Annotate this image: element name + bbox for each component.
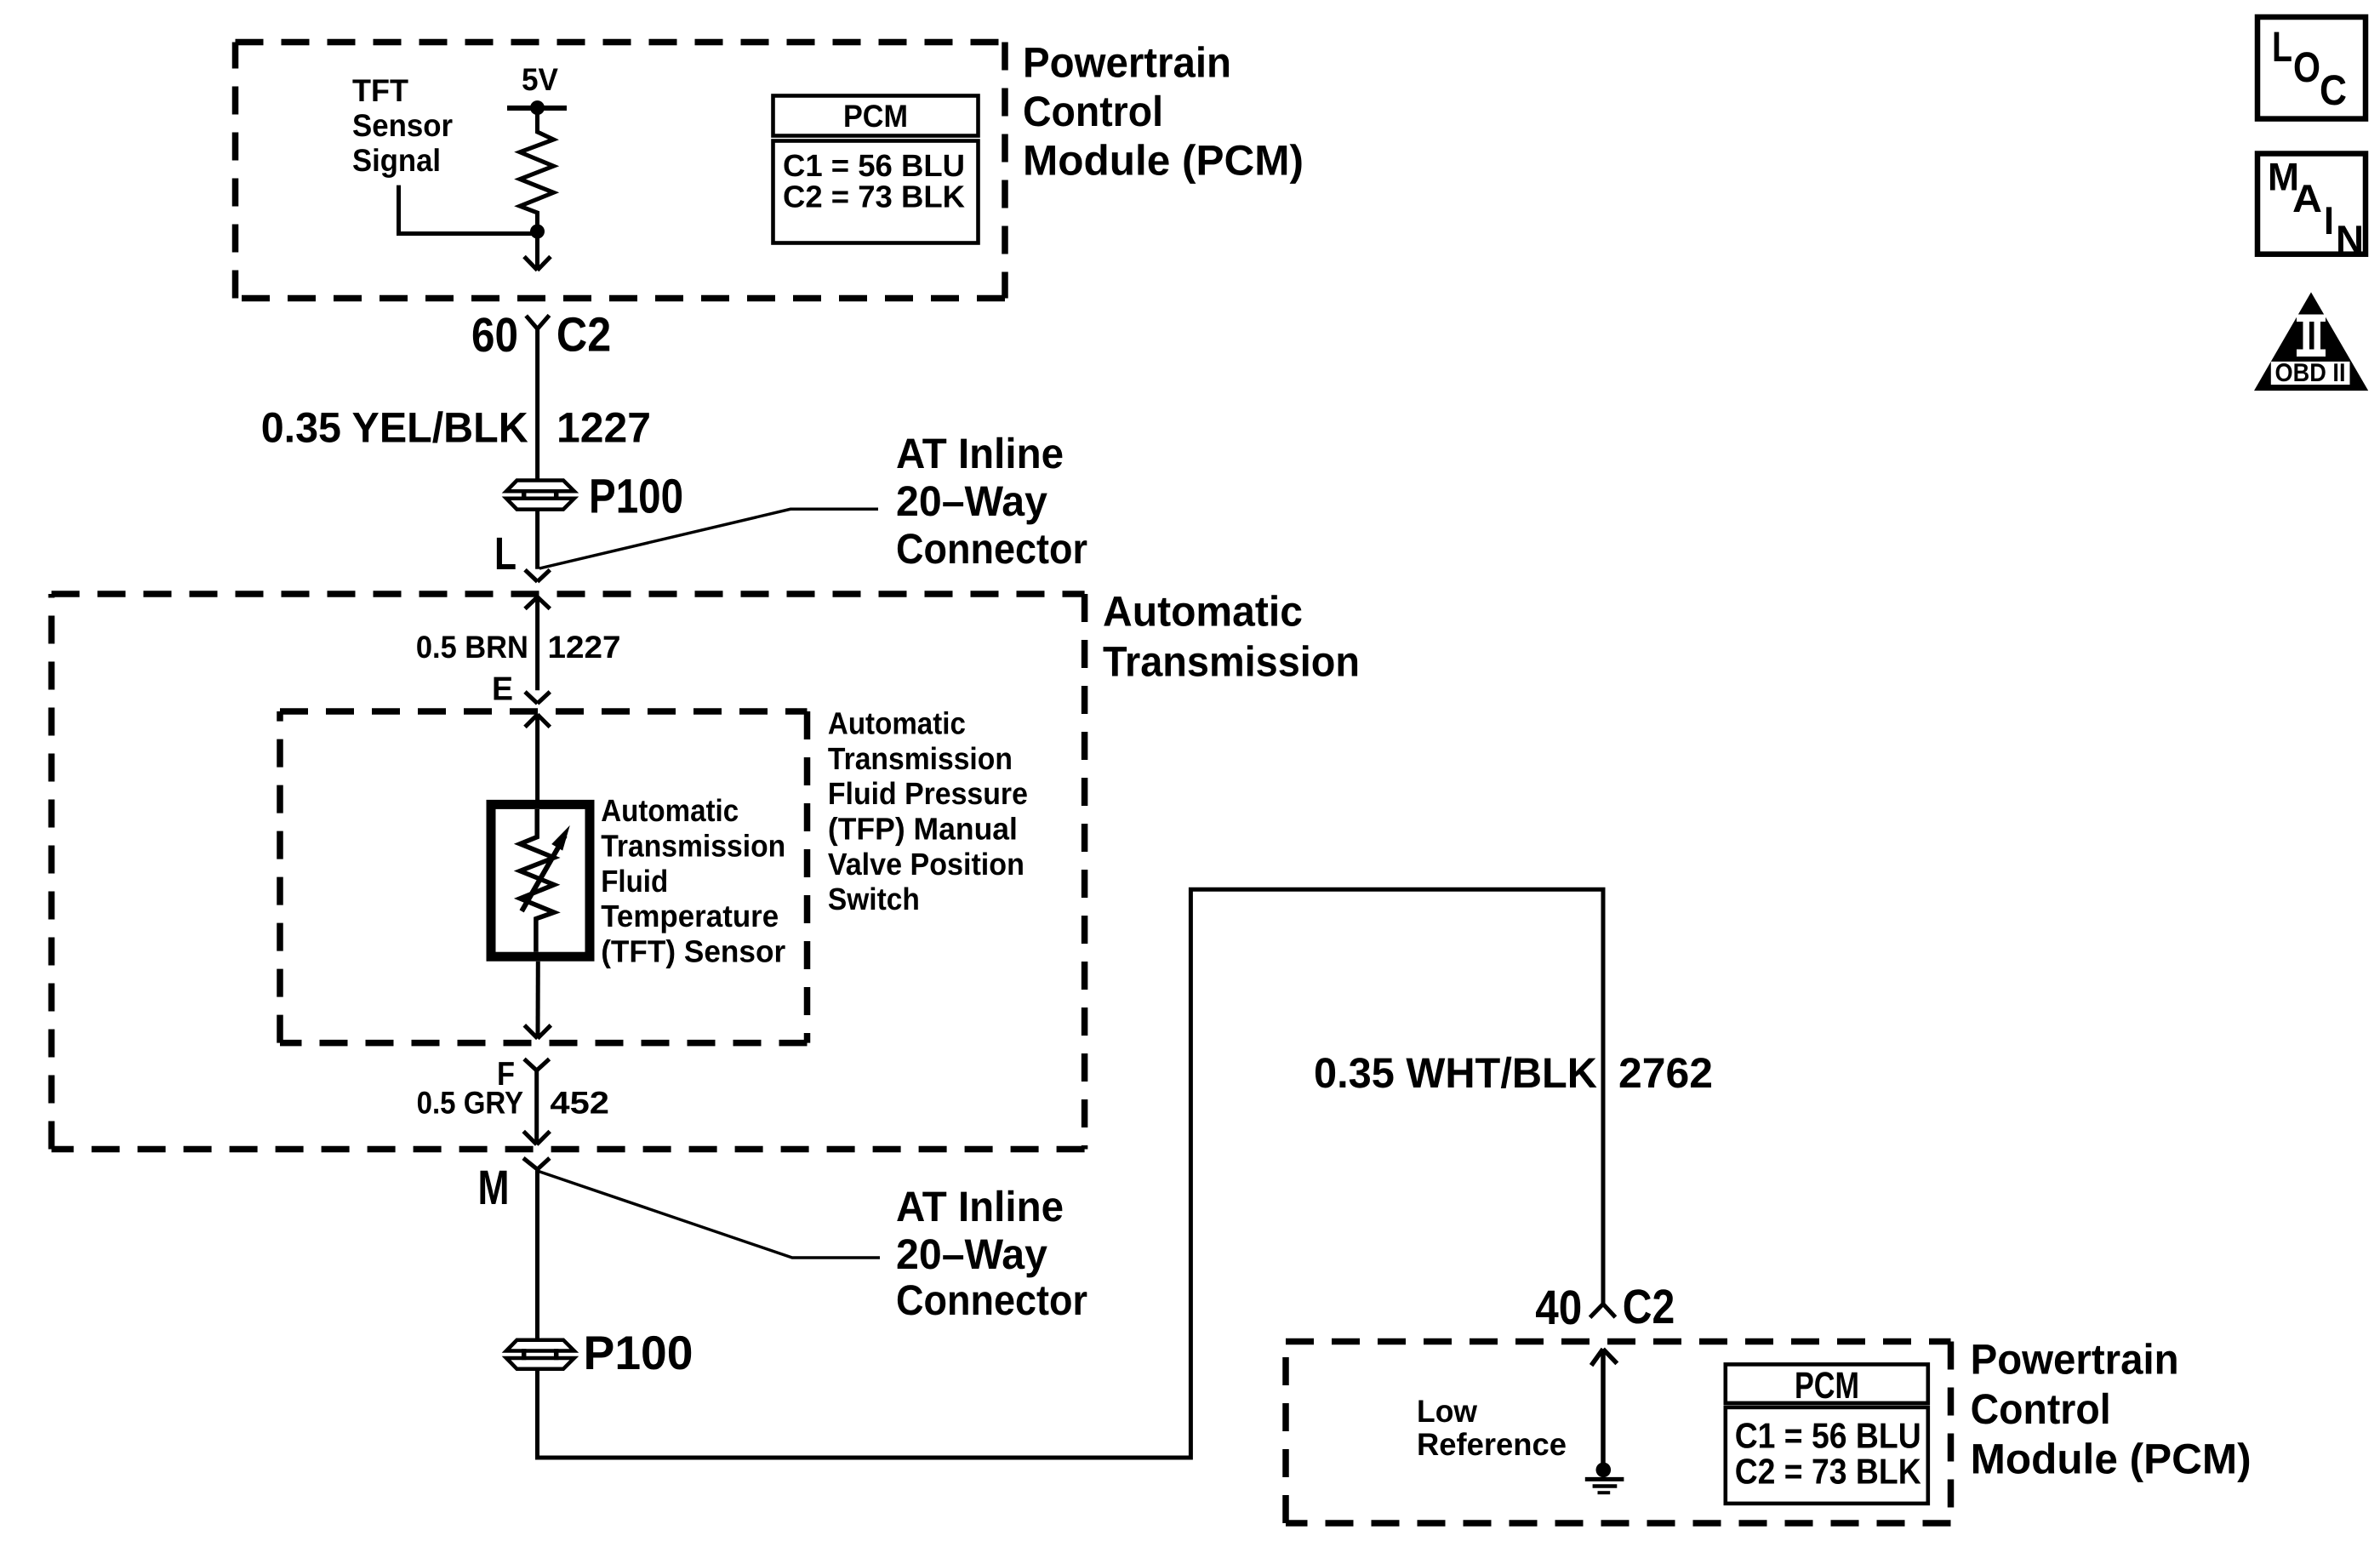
svg-text:Automatic: Automatic — [601, 793, 739, 828]
svg-text:P100: P100 — [584, 1326, 693, 1379]
svg-text:20–Way: 20–Way — [896, 1230, 1047, 1278]
svg-text:(TFT) Sensor: (TFT) Sensor — [601, 934, 785, 969]
wire: sensor to terminal F, arrow down — [524, 962, 551, 1039]
wire: 0.35 YEL/BLK 1227 from PCM to P100 — [535, 329, 539, 481]
svg-text:PCM: PCM — [843, 99, 908, 134]
svg-text:452: 452 — [550, 1085, 609, 1120]
junction: 5V node dot — [530, 100, 545, 115]
svg-text:C2: C2 — [556, 308, 611, 362]
svg-text:TFT: TFT — [352, 73, 408, 108]
connector terminal: E chevron — [525, 692, 550, 704]
module box: TFT sensor / TFP switch inner dashed enclosure — [280, 711, 808, 1043]
callout line: AT Inline 20-Way Connector (upper) — [539, 509, 878, 568]
svg-text:5V: 5V — [522, 62, 558, 97]
label: AT Inline 20-Way Connector (lower) — [896, 1183, 1087, 1324]
callout line: AT Inline 20-Way Connector (lower) — [538, 1171, 881, 1258]
svg-text:Temperature: Temperature — [601, 899, 779, 933]
svg-text:Automatic: Automatic — [1103, 588, 1303, 636]
svg-text:A: A — [2292, 176, 2322, 220]
svg-text:C1 = 56 BLU: C1 = 56 BLU — [783, 148, 965, 183]
wire: terminal F to transmission boundary, arrow down — [523, 1070, 550, 1144]
wire: low reference into PCM, arrow up — [1591, 1349, 1617, 1470]
wire: M to P100 lower — [535, 1169, 539, 1340]
resistor: PCM internal pull-up — [520, 107, 554, 231]
svg-text:AT Inline: AT Inline — [896, 430, 1064, 477]
svg-text:40: 40 — [1535, 1281, 1582, 1335]
svg-text:Connector: Connector — [896, 1276, 1087, 1324]
svg-text:Low: Low — [1417, 1394, 1477, 1429]
label: Automatic Transmission Fluid Temperature (TFT) Sensor — [601, 793, 785, 968]
svg-text:Reference: Reference — [1417, 1427, 1567, 1462]
connector P100: inline connector symbol (lower) — [506, 1340, 574, 1369]
svg-text:C2 = 73 BLK: C2 = 73 BLK — [1735, 1451, 1921, 1491]
wire: arrow to 60 C2 pin — [524, 231, 551, 271]
connector terminal: 40 C2 fork — [1590, 1304, 1616, 1317]
label: Low Reference — [1417, 1394, 1567, 1462]
svg-text:Module (PCM): Module (PCM) — [1023, 137, 1304, 185]
wire: 0.35 WHT/BLK 2762 low reference run — [538, 889, 1604, 1458]
svg-text:0.35 YEL/BLK: 0.35 YEL/BLK — [261, 403, 528, 451]
junction: TFT sensor signal node dot — [530, 225, 545, 239]
wire: P100 to terminal L — [535, 510, 539, 569]
svg-text:P100: P100 — [589, 470, 683, 524]
svg-text:1227: 1227 — [548, 630, 621, 665]
svg-text:Transmission: Transmission — [1103, 638, 1360, 686]
module box: Powertrain Control Module (PCM) top dashed enclosure — [236, 43, 1006, 299]
svg-text:(TFP) Manual: (TFP) Manual — [828, 812, 1018, 847]
svg-text:OBD II: OBD II — [2275, 359, 2346, 387]
svg-text:Connector: Connector — [896, 525, 1087, 573]
svg-text:Powertrain: Powertrain — [1971, 1335, 2179, 1383]
svg-text:2762: 2762 — [1618, 1049, 1713, 1097]
svg-text:L: L — [2272, 23, 2292, 71]
svg-text:C2 = 73 BLK: C2 = 73 BLK — [783, 180, 966, 214]
svg-text:Control: Control — [1971, 1385, 2111, 1433]
connector terminal: F chevron — [524, 1059, 550, 1071]
ground: PCM low reference ground symbol — [1585, 1479, 1624, 1493]
resistor: TFT thermistor element — [520, 809, 554, 952]
svg-text:Sensor: Sensor — [352, 108, 453, 143]
label: TFP Manual Valve Position Switch — [828, 706, 1028, 917]
svg-text:1227: 1227 — [556, 403, 651, 451]
label: Powertrain Control Module (PCM) top — [1023, 39, 1304, 185]
svg-text:Transmission: Transmission — [828, 741, 1013, 776]
svg-text:Control: Control — [1023, 88, 1163, 135]
svg-text:M: M — [478, 1161, 510, 1215]
label: AT Inline 20-Way Connector (upper) — [896, 430, 1087, 573]
svg-text:PCM: PCM — [1795, 1365, 1859, 1407]
wire: terminal E into sensor, arrow up — [525, 715, 550, 805]
icon: MAIN reference box — [2257, 154, 2366, 254]
connector terminal: M chevron — [523, 1158, 550, 1169]
label: Powertrain Control Module (PCM) bottom — [1971, 1335, 2252, 1482]
svg-text:I: I — [2324, 198, 2334, 243]
svg-text:AT Inline: AT Inline — [896, 1183, 1064, 1230]
svg-text:Powertrain: Powertrain — [1023, 39, 1231, 87]
svg-text:Fluid: Fluid — [601, 864, 668, 899]
module box: Powertrain Control Module (PCM) bottom dashed enclosure — [1286, 1342, 1951, 1524]
svg-text:Fluid Pressure: Fluid Pressure — [828, 776, 1028, 811]
svg-text:Signal: Signal — [352, 143, 441, 178]
svg-text:0.35 WHT/BLK: 0.35 WHT/BLK — [1314, 1049, 1597, 1097]
icon: OBD II triangle — [2254, 292, 2368, 391]
label: TFT Sensor Signal — [352, 73, 453, 178]
svg-text:L: L — [494, 528, 517, 579]
svg-text:Transmission: Transmission — [601, 829, 785, 864]
svg-text:0.5 GRY: 0.5 GRY — [417, 1085, 524, 1120]
connector terminal: L chevron — [525, 570, 550, 582]
module table: PCM connector legend (top) — [773, 96, 979, 243]
sensor box: TFT sensor outline — [491, 804, 590, 956]
svg-text:Module (PCM): Module (PCM) — [1971, 1436, 2252, 1483]
junction: ground node dot — [1596, 1463, 1612, 1478]
svg-text:Automatic: Automatic — [828, 706, 966, 741]
svg-text:Switch: Switch — [828, 882, 920, 916]
svg-text:C2: C2 — [1623, 1280, 1675, 1334]
connector P100: inline connector symbol (upper) — [506, 481, 574, 510]
wire: terminal L into transmission, arrow up — [525, 597, 550, 691]
svg-text:C1 = 56 BLU: C1 = 56 BLU — [1735, 1416, 1921, 1456]
module table: PCM connector legend (bottom) — [1726, 1364, 1928, 1504]
svg-text:E: E — [492, 671, 513, 707]
svg-text:N: N — [2336, 217, 2364, 261]
svg-text:O: O — [2293, 43, 2320, 91]
connector terminal: 60 C2 fork — [526, 316, 549, 329]
svg-text:20–Way: 20–Way — [896, 477, 1047, 525]
wire: 5V supply bar — [507, 106, 567, 111]
module box: Automatic Transmission dashed enclosure — [52, 594, 1085, 1150]
label: Automatic Transmission — [1103, 588, 1360, 686]
variable arrow: thermistor adjustment arrow — [522, 836, 565, 911]
svg-text:Valve Position: Valve Position — [828, 847, 1024, 882]
wire: TFT sensor signal tap — [399, 186, 538, 234]
svg-text:60: 60 — [471, 308, 518, 362]
svg-text:C: C — [2320, 66, 2347, 114]
svg-text:0.5 BRN: 0.5 BRN — [416, 630, 528, 665]
icon: LOC reference box — [2257, 17, 2366, 119]
